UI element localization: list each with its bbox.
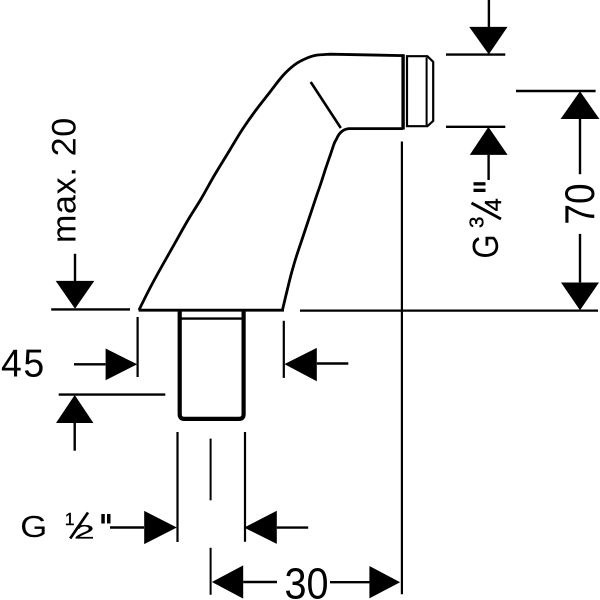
- svg-text:2: 2: [74, 521, 95, 543]
- svg-text:30: 30: [285, 559, 329, 600]
- G3/4 top terminal line: [446, 53, 505, 55]
- label G 3/4 inch rotated: [466, 198, 507, 258]
- threaded outlet G3/4 profile: [407, 56, 433, 126]
- G3/4 down arrow: [469, 27, 507, 55]
- svg-text:G: G: [467, 234, 507, 258]
- G3/4 bottom arrow shaft: [487, 155, 489, 180]
- max20 down arrow: [56, 281, 95, 309]
- 45 left arrow shaft: [74, 363, 106, 365]
- G1/2 right arrow shaft: [277, 526, 308, 528]
- max20 bottom arrow shaft: [73, 423, 75, 451]
- G3/4 up arrow: [470, 127, 508, 155]
- 70 upper shaft: [579, 119, 581, 174]
- 45 left-pointing arrow: [284, 348, 316, 381]
- G3/4 inch quote bars: [474, 182, 486, 185]
- max20 bottom terminal line: [59, 393, 166, 395]
- interior crease line of bend: [311, 82, 341, 128]
- stem extension line left: [176, 432, 178, 542]
- 30 right shaft: [330, 581, 369, 583]
- svg-text:G: G: [20, 509, 47, 544]
- G1/2 left arrow shaft: [110, 526, 144, 528]
- 45 right arrow shaft: [317, 362, 349, 364]
- 70 down arrow: [561, 283, 599, 311]
- 70 top terminal line: [516, 90, 596, 92]
- connector end cap line: [401, 54, 404, 129]
- svg-text:70: 70: [557, 183, 600, 224]
- G1/2 left-pointing arrow: [244, 511, 277, 544]
- G3/4 top arrow shaft: [488, 0, 490, 27]
- stem extension line right: [244, 432, 246, 542]
- threaded outlet inner line: [426, 58, 428, 126]
- svg-text:max. 20: max. 20: [46, 117, 84, 243]
- 30 left-pointing arrow: [212, 565, 243, 598]
- stem center line dash 2: [210, 548, 212, 595]
- max20 top terminal line: [51, 308, 130, 310]
- wall surface line right: [300, 310, 598, 312]
- spout body outline left+top: [139, 54, 403, 310]
- svg-text:3: 3: [466, 217, 489, 228]
- 45 right-pointing arrow: [106, 349, 138, 381]
- stem center line dash 1: [210, 439, 212, 501]
- spout base bottom edge: [139, 309, 284, 312]
- svg-text:45: 45: [1, 342, 46, 386]
- 70 lower shaft: [579, 234, 581, 283]
- max20 up arrow: [56, 395, 93, 423]
- G3/4 bottom terminal line: [446, 126, 505, 128]
- G1/2 right-pointing arrow: [144, 511, 177, 544]
- long extension line from connector down: [401, 142, 403, 595]
- threaded inlet stem G1/2: [180, 311, 244, 419]
- svg-text:4: 4: [480, 198, 506, 211]
- max20 top arrow shaft: [74, 254, 76, 281]
- 70 up arrow: [561, 91, 600, 119]
- label G 1/2 inch: [20, 509, 110, 544]
- 45 extension line left: [137, 317, 139, 377]
- stem top inner line: [181, 317, 242, 319]
- 30 right-pointing arrow: [369, 566, 400, 598]
- spout body outline right: [283, 129, 404, 310]
- 30 left shaft: [243, 581, 277, 583]
- 45 extension line right: [283, 321, 285, 378]
